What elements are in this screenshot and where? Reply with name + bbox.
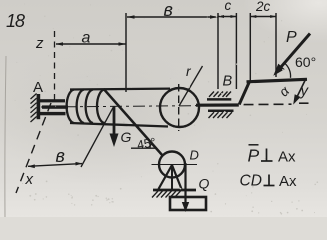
- svg-text:G: G: [121, 129, 132, 145]
- svg-text:x: x: [25, 171, 34, 188]
- rope arrowhead in weight: [182, 202, 189, 212]
- svg-text:2c: 2c: [255, 0, 271, 14]
- perpendicular symbol 1: [266, 149, 268, 162]
- svg-text:D: D: [190, 148, 199, 163]
- dimension 2c line: [250, 16, 276, 18]
- svg-text:CD: CD: [240, 173, 262, 190]
- svg-text:60°: 60°: [295, 54, 316, 70]
- shaft right of pulley: [196, 103, 239, 106]
- dimension c line: [218, 16, 236, 18]
- rope from drum to pulley D: [104, 89, 163, 156]
- 45 degree arc: [150, 143, 152, 148]
- bearing B bottom hatch: [209, 112, 233, 118]
- force P arrowhead: [273, 64, 284, 76]
- drum cylinder bottom line: [70, 123, 168, 127]
- svg-text:P: P: [286, 29, 297, 46]
- support A wall: [37, 94, 41, 119]
- bracket right leg: [172, 165, 182, 189]
- perpendicular symbol 2: [268, 175, 270, 186]
- svg-text:A: A: [33, 79, 43, 96]
- shaft centerline dash-dot: [41, 105, 240, 107]
- y axis arrowhead: [293, 94, 300, 104]
- r leader line: [179, 66, 203, 106]
- bearing A top bar: [40, 99, 65, 102]
- 60 degree arc: [284, 63, 290, 78]
- pulley r circle: [160, 88, 199, 127]
- b-dimension extension diagonal: [81, 107, 114, 167]
- extension line x218: [217, 13, 219, 89]
- drum rim arc 2: [86, 90, 93, 124]
- svg-text:в: в: [56, 146, 65, 166]
- bearing A bottom bar: [40, 112, 66, 115]
- drum cylinder top line: [70, 87, 170, 90]
- svg-text:Ax: Ax: [278, 149, 296, 166]
- crank bend CD: [239, 82, 249, 105]
- bracket center post: [171, 165, 173, 189]
- svg-text:Q: Q: [199, 176, 210, 192]
- drum rim arc 1: [77, 90, 84, 124]
- crank bar: [247, 79, 308, 82]
- axis short dash right of y arrow: [299, 102, 309, 104]
- ground hatch at D: [152, 191, 181, 198]
- page edge artifact: [5, 56, 6, 217]
- svg-text:Ax: Ax: [279, 173, 297, 190]
- weight Q rectangle: [170, 197, 206, 210]
- svg-text:z: z: [35, 35, 44, 52]
- bearing B bottom plate: [208, 109, 234, 112]
- svg-text:B: B: [223, 74, 233, 90]
- dimension b bottom line: [28, 164, 82, 167]
- dimension a line: [56, 43, 126, 45]
- svg-text:в: в: [164, 0, 173, 20]
- x axis (dashed): [16, 103, 51, 193]
- extension line x251: [249, 13, 251, 82]
- force G line: [113, 107, 116, 136]
- z axis (dashed): [54, 31, 56, 101]
- extension line x126: [125, 13, 127, 92]
- force P line: [279, 34, 311, 70]
- bracket left leg: [159, 165, 173, 189]
- y axis arrow line: [295, 80, 306, 103]
- extension line x276: [275, 13, 277, 77]
- svg-text:P: P: [248, 146, 260, 166]
- bearing A middle bar: [42, 105, 68, 108]
- svg-text:a: a: [82, 30, 91, 47]
- axis dashed extension right: [244, 103, 292, 105]
- svg-text:18: 18: [6, 11, 25, 31]
- support A hatch: [31, 94, 37, 123]
- pulley D circle: [159, 152, 185, 178]
- dimension b top line: [127, 16, 218, 18]
- force G arrowhead: [110, 134, 119, 148]
- pulley D centerline: [152, 164, 198, 166]
- rope down from pulley D: [184, 163, 186, 204]
- bearing B top plate: [207, 98, 231, 101]
- bearing B top hatch: [209, 92, 231, 97]
- extension line x235: [235, 13, 237, 89]
- svg-text:c: c: [225, 0, 232, 13]
- pulley r vertical centerline: [178, 84, 180, 131]
- drum left cap arc: [67, 90, 74, 124]
- 45 degree reference line: [131, 147, 157, 149]
- ground line at D: [153, 189, 196, 192]
- drum rim arc 3: [97, 89, 105, 123]
